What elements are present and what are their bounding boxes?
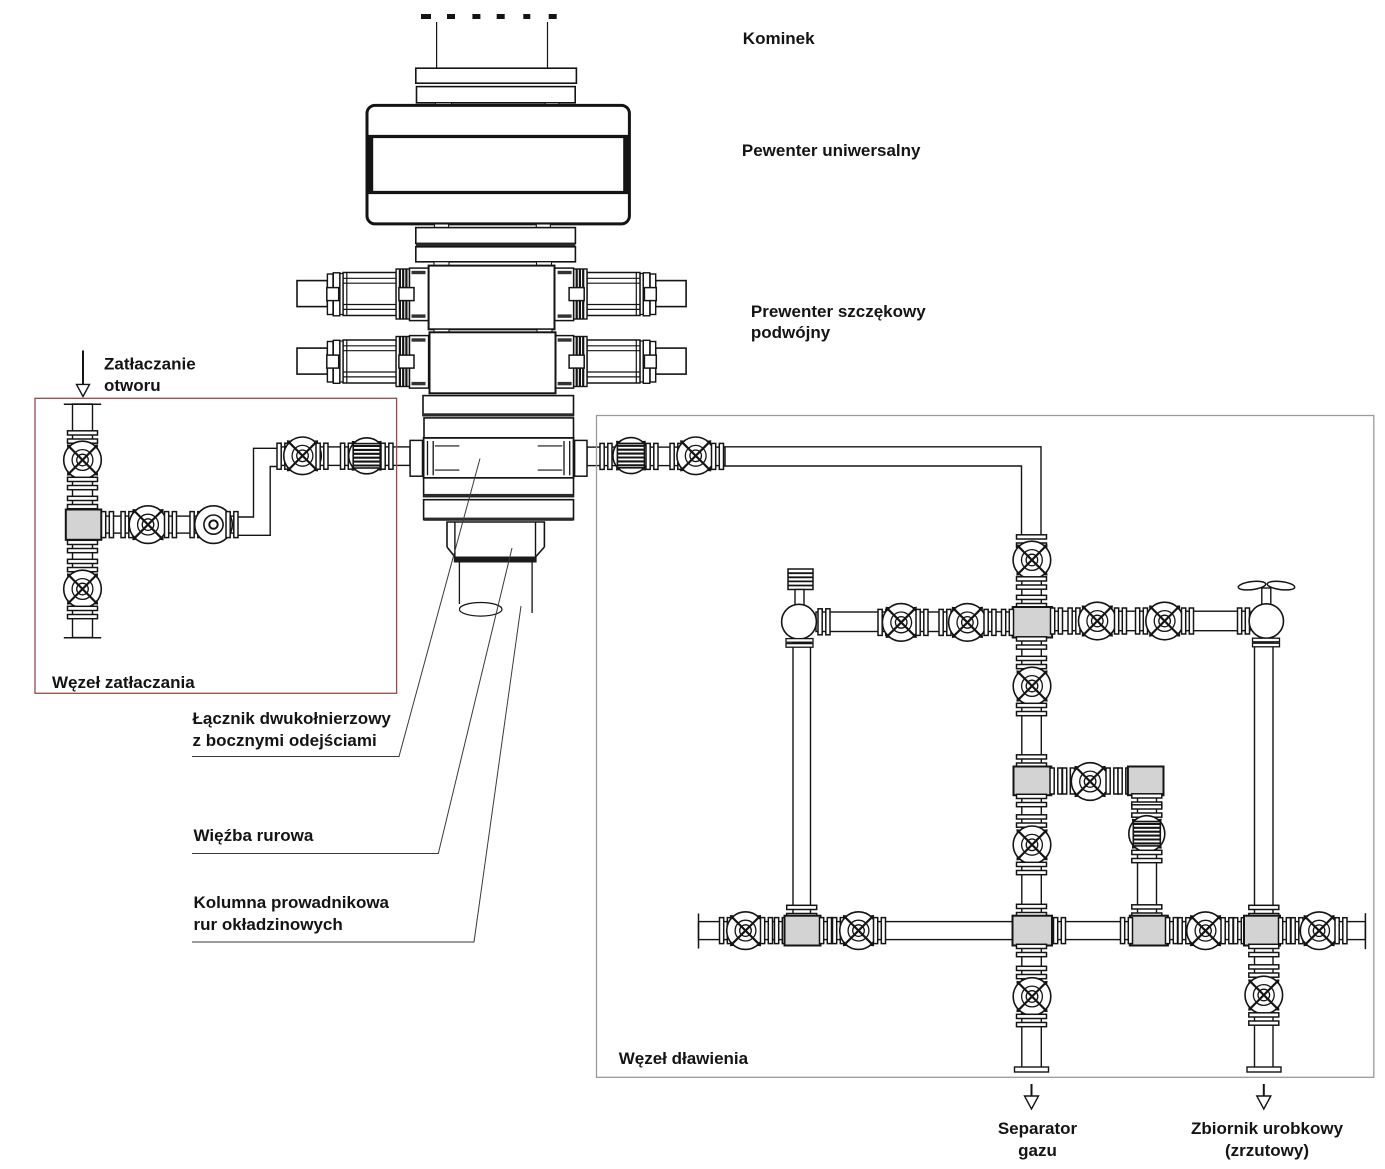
wire: choke line top run and downcomer [722, 447, 1041, 538]
wire: bottom row mid segment [819, 922, 1130, 940]
wire: left elbow riser to spool line [233, 448, 279, 535]
flange below manifold cross [1017, 637, 1047, 649]
valve Z5 (gate valve, choke line) [677, 437, 715, 475]
flange below choke CH2 [1253, 638, 1280, 647]
node: dump outlet end flange [1247, 1067, 1281, 1072]
node: bottom row right end cap [1364, 913, 1366, 949]
flange right of valve Z14 [1106, 768, 1118, 794]
wire: bottom row left segment [699, 922, 787, 940]
flange above cross K4 [1249, 905, 1279, 917]
svg-text:Pewenter uniwersalny: Pewenter uniwersalny [742, 141, 921, 160]
preventer: ram BOP lower body [430, 332, 556, 393]
svg-text:Węzeł zatłaczania: Węzeł zatłaczania [52, 673, 195, 692]
wire: manifold row right segment [1051, 611, 1250, 631]
cross fitting K3 (bottom row center) [1013, 916, 1053, 946]
choke CH2 (manual choke ball, right) [1249, 604, 1283, 638]
valve Z9 (separator outlet) [1013, 978, 1051, 1016]
flange above valve Z19 [1249, 965, 1279, 977]
preventer: drilling spool body (Lacznik dwukolnierzowy) [424, 438, 574, 478]
wire: manifold row left segment [816, 612, 1014, 632]
node: spool right outlet flange [575, 440, 587, 476]
choke CH1 stem [795, 590, 804, 607]
svg-text:z bocznymi odejściami: z bocznymi odejściami [193, 731, 377, 750]
choke CH2 stem [1262, 588, 1271, 605]
flange below choke CH1 [786, 639, 813, 648]
flange above tee T1 [787, 905, 817, 917]
node: spool top flange dark edge [423, 413, 574, 416]
wire: left box horizontal pipe run [101, 516, 234, 533]
node: spool lower flange C [424, 478, 574, 497]
wire: manifold center vertical pipe [1022, 546, 1042, 1068]
flange below valve Z1 [68, 477, 98, 489]
flange right of valve Z13 [1182, 608, 1194, 634]
flange right of valve Z3 [165, 512, 177, 538]
node: tabs below annular preventer [435, 224, 551, 228]
wire: left choke drop pipe [793, 643, 811, 917]
svg-text:Prewenter szczękowy: Prewenter szczękowy [751, 302, 926, 321]
flange left of valve Z17 [1178, 918, 1190, 944]
choke CH2 handle [1238, 580, 1295, 591]
flange right of valve Z11 [984, 609, 996, 635]
flange below injection cross [68, 540, 98, 552]
node: label underline - lacznik [192, 459, 480, 757]
node: spool left outlet flange [410, 440, 422, 476]
node: chimney flange lower [417, 87, 576, 103]
node: separator arrow [1025, 1084, 1039, 1109]
flange left of choke D2 [600, 443, 612, 469]
flange below valve Z2 [68, 606, 98, 618]
flange above tee T2 [1017, 755, 1047, 767]
wire: left spool outlet line [279, 447, 410, 466]
valve Z4 (gate valve, kill line) [284, 437, 322, 475]
node: dump tank arrow [1257, 1084, 1271, 1109]
preventer: annular (Pewenter uniwersalny) body [367, 105, 629, 223]
svg-text:gazu: gazu [1018, 1141, 1057, 1160]
flange below valve Z9 [1017, 1014, 1047, 1026]
flange right of choke CH1 [818, 609, 830, 635]
wire: chimney pipe lines [437, 22, 548, 68]
flange right of tee T2 [1050, 768, 1062, 794]
tee fitting T1 (bottom row left) [785, 916, 821, 946]
check valve CV1 [195, 506, 233, 544]
flange below elbow E1 (lower) [1132, 805, 1162, 817]
cross fitting K1 (injection node) [66, 510, 102, 540]
preventer: ram BOP upper body [429, 266, 555, 330]
tee fitting T3 (bottom row) [1130, 916, 1168, 946]
flange above valve Z7 [1017, 656, 1047, 668]
valve Z13 (manifold row) [1146, 602, 1184, 640]
svg-text:Zbiornik urobkowy: Zbiornik urobkowy [1191, 1119, 1344, 1138]
wire: mid choke drop pipe [1138, 795, 1157, 917]
node: chimney flange upper [416, 68, 577, 83]
elbow fitting E1 [1128, 767, 1164, 796]
valve Z14 (mid branch) [1071, 763, 1109, 801]
flange left of valve Z3 [121, 512, 133, 538]
wire: right spool outlet line [587, 447, 725, 466]
node: tabs between ram bodies [434, 329, 552, 332]
cross fitting K4 (bottom row right) [1244, 916, 1280, 946]
flange above valve Z6 [1017, 535, 1047, 547]
node: spool left inner flange lines [428, 441, 434, 475]
flange right of valve Z4 [316, 443, 328, 469]
flange left of valve Z4 [277, 443, 289, 469]
svg-text:Separator: Separator [998, 1119, 1078, 1138]
flange below cross K4 [1249, 944, 1279, 956]
node: choke manifold box (Wezel dlawienia) [597, 416, 1374, 1078]
svg-text:rur okładzinowych: rur okładzinowych [194, 915, 343, 934]
flange above valve Z8 [1017, 815, 1047, 827]
flange above valve Z2 [68, 559, 98, 571]
flange left of choke CH2 [1238, 608, 1250, 634]
node: adapter flange B [416, 247, 576, 262]
flange below valve Z6 [1017, 577, 1047, 589]
choke CH1 hand screw [788, 569, 813, 590]
node: casing pipe (Kolumna prowadnikowa) [459, 563, 532, 617]
flange left of valve Z13 [1136, 608, 1148, 634]
flange above valve Z9 [1017, 966, 1047, 978]
svg-text:Zatłaczanie: Zatłaczanie [104, 355, 196, 374]
svg-text:Kominek: Kominek [743, 29, 815, 48]
flange left of valve Z14 [1063, 768, 1075, 794]
cross fitting K2 (manifold center) [1013, 607, 1052, 638]
flange above tee T3 [1132, 905, 1162, 917]
valve Z16 (bottom row) [840, 912, 878, 950]
wire: bottom row right segment [1166, 922, 1365, 940]
node: separator outlet end flange [1015, 1067, 1049, 1072]
node: spool notch lines [435, 446, 563, 470]
flange right of choke D2 [646, 443, 658, 469]
flange left of valve Z10 [878, 609, 890, 635]
node: label underline - wiezba [192, 548, 512, 854]
flange right of cross K3 [1054, 918, 1066, 944]
actuator: ram hydraulic cylinder upper-right [555, 268, 687, 321]
valve Z7 (center vertical upper) [1013, 667, 1051, 705]
flange left of cross K4 [1234, 918, 1246, 944]
svg-text:podwójny: podwójny [751, 323, 831, 342]
wire: left injection vertical pipe [73, 404, 93, 638]
svg-text:Kolumna prowadnikowa: Kolumna prowadnikowa [194, 893, 390, 912]
tee fitting T2 (mid branch) [1014, 767, 1052, 796]
valve Z17 (bottom row) [1187, 912, 1225, 950]
node: adapter flange dark band [416, 243, 576, 246]
valve Z1 (gate valve, injection line upper) [64, 441, 102, 479]
choke CH1 (adjustable choke ball, left) [782, 604, 817, 639]
flange left of valve Z5 [670, 443, 682, 469]
node: spool lower flange D [424, 500, 574, 520]
flange below valve Z19 [1249, 1013, 1279, 1025]
flange left of tee T1 [775, 918, 787, 944]
node: tabs above ram preventer [434, 262, 552, 266]
valve Z12 (manifold row) [1079, 602, 1117, 640]
node: injection arrow [77, 351, 90, 397]
svg-text:Więźba rurowa: Więźba rurowa [194, 826, 314, 845]
svg-text:(zrzutowy): (zrzutowy) [1225, 1141, 1309, 1160]
flange below valve Z8 [1017, 862, 1047, 874]
flange right of cross K4 [1279, 918, 1291, 944]
flange right of tee T3 [1166, 918, 1178, 944]
valve Z19 (dump line outlet) [1245, 976, 1283, 1014]
node: tabs above annular preventer [435, 103, 559, 107]
flange right of cross K1 [102, 512, 114, 538]
flange left of valve Z18 [1291, 918, 1303, 944]
flange left of choke D1 [341, 443, 353, 469]
flange right of valve Z16 [874, 918, 886, 944]
flange above manifold cross [1017, 595, 1047, 607]
svg-text:Łącznik dwukołnierzowy: Łącznik dwukołnierzowy [193, 709, 392, 728]
node: spool second flange [424, 418, 574, 438]
wire: right choke drop pipe [1255, 643, 1274, 1068]
svg-text:otworu: otworu [104, 376, 161, 395]
valve Z8 (center vertical lower) [1013, 826, 1051, 864]
choke D1 (striped valve, kill line) [349, 438, 385, 474]
actuator: ram hydraulic cylinder lower-right [555, 336, 687, 389]
choke D2 (striped valve, choke line) [613, 438, 649, 474]
flange right of valve Z15 [761, 918, 773, 944]
valve Z3 (gate valve, injection branch) [129, 506, 167, 544]
node: casing head (Wiezba rurowa) [447, 522, 544, 563]
flange above valve Z1 [68, 431, 98, 443]
flange right of valve Z18 [1335, 918, 1347, 944]
valve Z18 (bottom row) [1300, 912, 1338, 950]
svg-text:Węzeł dławienia: Węzeł dławienia [619, 1049, 749, 1068]
flange above injection cross [68, 496, 98, 508]
flange below elbow E1 (upper) [1132, 794, 1162, 806]
actuator: ram hydraulic cylinder lower-left [297, 336, 429, 389]
node: injection box (Wezel zatlaczania) [35, 398, 397, 693]
valve Z10 (manifold row) [882, 604, 920, 642]
flange left of check valve [190, 512, 202, 538]
valve Z11 (manifold row) [949, 604, 987, 642]
node: spool right inner flange lines [564, 441, 570, 475]
flange left of valve Z15 [720, 918, 732, 944]
node: adapter flange A [416, 228, 576, 244]
flange left of valve Z12 [1068, 608, 1080, 634]
node: bottom row left end cap [698, 914, 700, 949]
valve Z2 (gate valve, injection line lower) [64, 570, 102, 608]
flange right of valve Z17 [1221, 918, 1233, 944]
flange left of valve Z16 [833, 918, 845, 944]
node: injection pipe top cap [64, 403, 101, 405]
flange left of cross K2 [1002, 609, 1014, 635]
flange below valve Z7 [1017, 703, 1047, 715]
flange right of valve Z10 [916, 609, 928, 635]
actuator: ram hydraulic cylinder upper-left [297, 268, 429, 321]
flange above cross K3 [1017, 904, 1047, 916]
flange right of tee T1 [820, 918, 832, 944]
flange below cross K3 [1017, 944, 1047, 956]
flange below choke D3 [1132, 850, 1162, 862]
node: injection pipe bottom cap [64, 637, 101, 639]
choke D3 (striped choke, mid branch) [1129, 816, 1165, 852]
flange right of cross K2 [1051, 608, 1063, 634]
flange right of choke D1 [381, 443, 393, 469]
flange left of valve Z11 [939, 609, 951, 635]
flange left of tee T3 [1121, 918, 1133, 944]
node: spool flange D dark edge [424, 518, 574, 521]
valve Z6 (manifold inlet) [1013, 541, 1051, 579]
flange right of valve Z12 [1115, 608, 1127, 634]
node: label underline - kolumna [192, 606, 521, 942]
valve Z15 (bottom row) [727, 912, 765, 950]
flange right of check valve [226, 512, 238, 538]
node: chimney dashed line [421, 14, 557, 19]
node: spool flange C dark edge [424, 494, 574, 497]
node: spool top flange [423, 396, 574, 416]
flange left of elbow [1118, 768, 1130, 794]
flange right of valve Z5 [712, 443, 724, 469]
flange below tee T2 [1017, 794, 1047, 806]
